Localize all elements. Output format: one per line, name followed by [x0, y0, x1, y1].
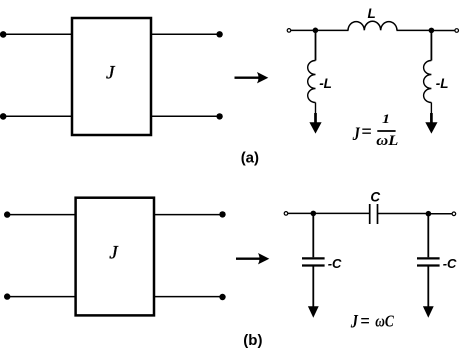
arrow to ground right (b): [423, 306, 434, 317]
formula J = omega C: [350, 311, 395, 333]
svg-text:ωC: ωC: [375, 311, 394, 330]
wire top-right lower: [151, 115, 220, 117]
wire shunt inductor to arrow (a right): [430, 103, 432, 116]
wire bottom-left lower: [7, 296, 76, 298]
svg-text:-C: -C: [443, 256, 457, 271]
wire top-left upper: [3, 33, 72, 35]
formula J = 1/(omega L): [352, 111, 398, 149]
two-port network box J (bottom): [76, 198, 154, 316]
terminal dot port1+ (top): [0, 31, 7, 38]
arrow to ground right (a): [425, 113, 437, 134]
svg-text:-C: -C: [328, 256, 342, 271]
wire shunt capacitor to arrow (b left): [312, 266, 314, 309]
terminal dot port2- (top): [216, 113, 222, 119]
svg-text:=: =: [361, 121, 372, 143]
shunt inductor -L left coil: [308, 61, 316, 103]
svg-text:ωL: ωL: [376, 133, 398, 149]
wire terminal to node 1 (a): [291, 29, 314, 31]
terminal dot port2+ (bottom): [219, 211, 225, 217]
terminal dot port2+ (top): [216, 31, 222, 37]
wire capacitor to node 2 (b): [378, 213, 429, 215]
junction node 2 (a): [429, 28, 435, 34]
wire node2 to right terminal (a): [431, 30, 454, 32]
svg-text:J: J: [350, 312, 358, 333]
junction node 1 (a): [313, 28, 319, 34]
wire inductor to node 2 (a): [397, 29, 432, 31]
wire node2 down to shunt inductor (a): [430, 30, 432, 60]
node terminal open circle left (a): [287, 29, 291, 33]
junction node 1 (b): [311, 211, 317, 217]
wire top-right upper: [151, 33, 220, 35]
wire bottom-right lower: [154, 296, 223, 298]
wire node2 to right terminal (b): [428, 213, 452, 215]
wire node1 to capacitor C (b): [313, 212, 369, 214]
equivalence arrow (b): [236, 253, 269, 264]
arrow to ground left (a): [309, 113, 321, 134]
shunt capacitor -C right plates: [417, 258, 440, 265]
wire shunt inductor to arrow (a left): [315, 103, 317, 116]
wire node1 to inductor L (a): [315, 29, 348, 31]
svg-text:(a): (a): [241, 149, 259, 166]
svg-text:-L: -L: [436, 76, 449, 91]
wire node1 down to shunt capacitor (b): [312, 213, 314, 257]
node terminal open circle right (a): [455, 29, 459, 33]
svg-text:J: J: [352, 124, 360, 145]
junction node 2 (b): [426, 211, 432, 217]
wire shunt capacitor to arrow (b right): [427, 266, 429, 309]
svg-text:C: C: [370, 189, 380, 204]
node terminal open circle left (b): [284, 212, 288, 216]
terminal dot port1- (bottom): [4, 293, 10, 299]
wire node2 down to shunt capacitor (b): [427, 214, 429, 258]
equivalence arrow (a): [235, 72, 269, 83]
svg-text:=: =: [360, 311, 370, 333]
svg-text:1: 1: [382, 111, 390, 126]
wire bottom-left upper: [7, 214, 76, 216]
svg-text:-L: -L: [319, 76, 332, 91]
wire bottom-right upper: [154, 214, 223, 216]
arrow to ground left (b): [308, 306, 319, 317]
terminal dot port1- (top): [0, 113, 7, 120]
terminal dot port1+ (bottom): [4, 211, 10, 217]
capacitor C series plates: [370, 204, 378, 224]
wire top-left lower: [3, 115, 72, 117]
wire terminal to node 1 (b): [288, 212, 312, 214]
inductor L series coil: [348, 21, 397, 30]
wire node1 down to shunt inductor (a): [315, 30, 317, 60]
shunt inductor -L right coil: [424, 61, 432, 103]
two-port network box J (top): [72, 18, 151, 135]
node terminal open circle right (b): [452, 212, 456, 216]
svg-text:L: L: [368, 6, 376, 21]
svg-text:(b): (b): [243, 332, 262, 349]
shunt capacitor -C left plates: [302, 258, 325, 265]
terminal dot port2- (bottom): [219, 294, 225, 300]
